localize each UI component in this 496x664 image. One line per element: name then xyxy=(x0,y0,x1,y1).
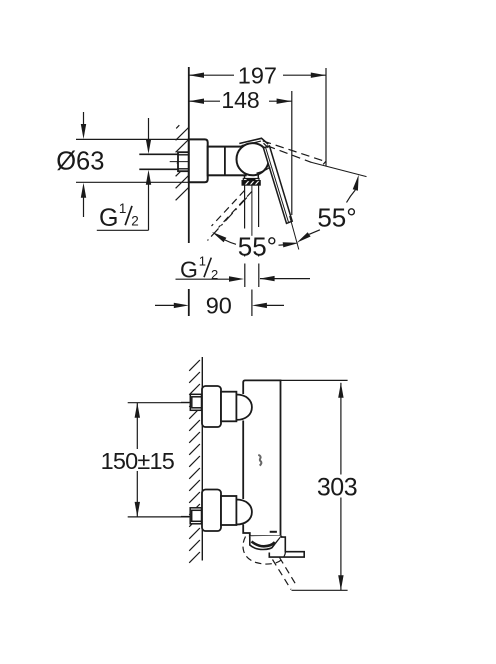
svg-text:1: 1 xyxy=(199,253,206,268)
svg-text:150±15: 150±15 xyxy=(101,448,175,474)
svg-text:2: 2 xyxy=(131,213,139,228)
svg-text:G: G xyxy=(99,204,118,232)
svg-text:197: 197 xyxy=(238,63,277,89)
svg-text:G: G xyxy=(180,257,198,283)
svg-text:148: 148 xyxy=(221,87,259,113)
svg-text:55°: 55° xyxy=(238,232,277,262)
svg-text:55°: 55° xyxy=(317,203,356,233)
svg-text:303: 303 xyxy=(317,474,357,502)
svg-text:1: 1 xyxy=(119,201,127,216)
svg-text:Ø63: Ø63 xyxy=(56,148,104,176)
svg-text:2: 2 xyxy=(211,267,218,282)
svg-text:90: 90 xyxy=(206,293,232,319)
